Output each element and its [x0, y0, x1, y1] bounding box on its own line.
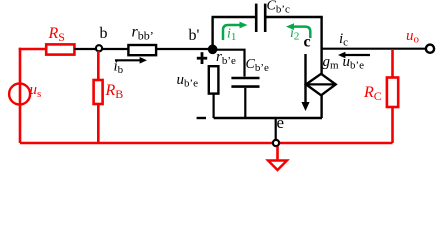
svg-text:i2: i2 [290, 26, 299, 43]
output terminal circle [426, 45, 434, 53]
wire: rb'e bottom stem [213, 94, 215, 118]
ground stub (red) [276, 147, 279, 161]
wire: red RB to rail [97, 104, 100, 143]
ground triangle (red) [268, 161, 287, 171]
svg-text:RB: RB [105, 82, 124, 101]
wire: Cb'e bottom stem [244, 88, 246, 118]
wire: b' vertical up to top rail [211, 17, 213, 49]
wire: collector wire to output [322, 48, 426, 50]
dependent source current arrow (down) [304, 54, 306, 103]
svg-text:RC: RC [363, 84, 382, 103]
dependent source gm ub'e diamond [306, 74, 336, 96]
node e junction ring [273, 140, 279, 146]
svg-text:Cb’e: Cb’e [246, 57, 270, 74]
wire: diamond bottom stem [320, 95, 322, 118]
resistor RB [94, 80, 103, 104]
resistor rbb' [128, 45, 156, 55]
wire: c vertical down to collector wire [320, 17, 322, 49]
wire: top rail right segment [266, 16, 322, 18]
wire: left red column from top wire to rail [19, 48, 22, 143]
svg-text:c: c [304, 34, 311, 51]
svg-text:b: b [100, 25, 108, 42]
wire: black RS to node b to rbb' [74, 48, 128, 50]
svg-text:rb’e: rb’e [216, 49, 236, 67]
wire: red top-left segment to RS [19, 48, 47, 51]
svg-text:rbb’: rbb’ [132, 24, 154, 43]
wire: emitter vertical down to rail [275, 118, 277, 143]
svg-text:e: e [277, 113, 285, 132]
svg-text:uo: uo [406, 28, 420, 46]
capacitor Cb'e plates [231, 77, 259, 80]
resistor rb'e [209, 66, 219, 93]
wire: red RB branch down from b [97, 51, 100, 81]
plus sign of ub'e [197, 57, 207, 60]
minus sign of ub'e [197, 117, 206, 119]
wire: red RC to rail [391, 107, 394, 143]
capacitor Cb'c plates [255, 4, 258, 32]
wire: bottom red rail (net 0) [20, 142, 393, 145]
svg-text:gm: gm [323, 54, 340, 72]
current arrow i1 (green) [223, 25, 240, 40]
node b ring [96, 45, 102, 51]
wire: collector vertical into diamond [320, 49, 322, 74]
svg-text:b': b' [189, 27, 200, 44]
source us circle [9, 84, 30, 105]
svg-text:RS: RS [48, 25, 65, 44]
svg-text:Cb’c: Cb’c [267, 0, 291, 16]
current arrow i2 (green) [292, 27, 310, 38]
current arrow ib [115, 59, 141, 61]
wire: top rail left segment [212, 16, 256, 18]
resistor RC [387, 78, 398, 108]
svg-text:ub’e: ub’e [177, 72, 199, 90]
svg-text:i1: i1 [227, 27, 236, 44]
wire: inner bottom wire (emitter) [214, 117, 322, 119]
svg-text:us: us [30, 82, 42, 100]
arrow over ub'e (controlling voltage, points left) [344, 54, 370, 56]
svg-text:ub’e: ub’e [343, 54, 365, 72]
wire: b' to Cb'e top stub [216, 50, 245, 77]
wire: rbb' to node b' [156, 48, 213, 50]
wire: red RC branch tap [391, 49, 394, 78]
node b' dot [208, 45, 218, 55]
svg-text:ic: ic [339, 31, 348, 49]
resistor RS [46, 44, 74, 54]
